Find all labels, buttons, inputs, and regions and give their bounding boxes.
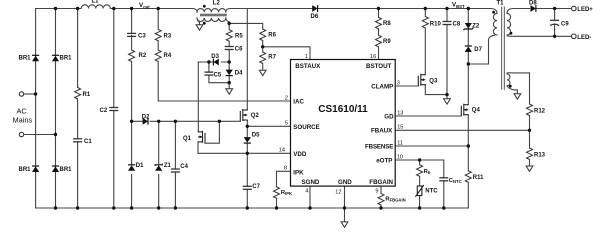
inductor L1 — [78, 5, 114, 9]
polarity dot L2 bottom — [203, 22, 206, 25]
polarity dot T1 secondary — [510, 32, 513, 35]
svg-text:C8: C8 — [453, 21, 461, 27]
wire: top rail from L1 to L2 — [114, 8, 193, 10]
svg-text:eOTP: eOTP — [376, 157, 392, 164]
capacitor C8 — [443, 22, 452, 25]
node: VDD line at D5/C7 — [246, 152, 249, 155]
transformer T1 core — [502, 7, 505, 89]
svg-text:R6: R6 — [268, 33, 276, 39]
svg-text:10: 10 — [397, 154, 403, 160]
node: FBAUX at R12/R13 — [528, 129, 531, 132]
IC U1 CS1610/11 box — [291, 60, 396, 187]
wire: link from clamp node to T1 primary bottom — [468, 35, 494, 64]
svg-text:FBSENSE: FBSENSE — [365, 143, 393, 150]
node: LED+ at C9 — [553, 7, 556, 10]
svg-text:D2: D2 — [142, 114, 150, 120]
wire: Q3 source to clamp ground node — [425, 85, 447, 95]
wire: FBAUX pin 15 line to R12/R13 node — [395, 129, 529, 131]
node: C5/D4 bottom junction — [228, 81, 231, 84]
AC mains terminal (line) — [19, 92, 23, 96]
bridge diode BR1 top-left — [32, 55, 39, 61]
diode D8 — [531, 5, 536, 12]
ground arrow under R7 — [259, 70, 266, 75]
svg-text:Q3: Q3 — [429, 79, 438, 85]
node: top rail at Z2 (VBST) — [467, 7, 470, 10]
svg-text:8: 8 — [284, 166, 287, 172]
svg-text:D5: D5 — [252, 132, 260, 138]
node: eOTP at R6/NTC — [418, 158, 421, 161]
wire: Q4 source to FBSENSE node — [467, 115, 469, 146]
svg-text:R10: R10 — [430, 22, 442, 28]
svg-text:14: 14 — [279, 148, 285, 154]
wire: left bridge column x=35.6 — [35, 9, 37, 209]
polarity dot T1 primary — [492, 11, 495, 14]
svg-text:R2: R2 — [139, 53, 147, 59]
wire: top rail from D6 to T1 primary — [318, 8, 491, 10]
capacitor C1 — [73, 139, 82, 142]
wire: FBGAIN pin 9 stub and RFBGAIN branch x=381 — [380, 186, 382, 208]
svg-text:11: 11 — [397, 140, 403, 146]
svg-text:IAC: IAC — [293, 99, 304, 106]
node: LED- at C9 — [553, 35, 556, 38]
svg-text:NTC: NTC — [425, 188, 438, 194]
node: AC neutral at right column — [54, 133, 57, 136]
svg-text:CS1610/11: CS1610/11 — [318, 104, 368, 115]
wire: C3/R2/D1 branch x=131.6 — [131, 9, 133, 209]
svg-text:2: 2 — [285, 95, 288, 101]
wire: top rail left segment (rectified V+) — [36, 8, 79, 10]
svg-text:AC: AC — [17, 107, 28, 116]
svg-text:C3: C3 — [138, 34, 146, 40]
resistor RFBGAIN — [378, 194, 384, 206]
svg-text:RFBGAIN: RFBGAIN — [385, 197, 405, 203]
wire: Q4 drain from clamp node — [467, 64, 469, 105]
svg-text:BSTAUX: BSTAUX — [295, 63, 321, 70]
thermistor NTC — [415, 185, 423, 197]
wire: GND pin 12 stub and chassis stem — [344, 186, 346, 222]
transformer T1 auxiliary winding — [507, 73, 530, 86]
wire: D3 node line y=62 — [198, 61, 229, 63]
capacitor C9 (polarized) — [550, 20, 559, 25]
wire: T1 secondary bottom lead to LED- — [507, 35, 572, 36]
svg-text:C2: C2 — [100, 108, 108, 114]
node: FBSENSE / Q4 source / R11 — [467, 144, 470, 147]
capacitor C6 — [225, 47, 234, 50]
svg-text:R9: R9 — [383, 39, 391, 45]
svg-text:C5: C5 — [214, 72, 222, 78]
wire: bottom rail (DC return) — [36, 207, 469, 209]
wire: C7 branch x=247.3 — [246, 153, 248, 208]
node: top rail at C2 — [112, 7, 115, 10]
bridge diode BR1 bottom-right — [52, 166, 59, 172]
resistor R13 — [527, 148, 533, 160]
wire: IPK pin 8 line and RIPK branch x=276.5 — [277, 171, 291, 208]
svg-text:R11: R11 — [473, 175, 484, 181]
wire: top rail from L2 to D6 — [230, 8, 312, 10]
svg-text:Z1: Z1 — [164, 163, 172, 169]
svg-text:C6: C6 — [235, 47, 243, 53]
zener Z2 — [463, 23, 473, 30]
LED+ output terminal — [572, 6, 577, 11]
svg-text:5: 5 — [285, 121, 288, 127]
node: top rail at R3 — [157, 7, 160, 10]
AC mains terminal (neutral) — [19, 132, 23, 136]
svg-text:BR1: BR1 — [19, 167, 32, 173]
svg-text:C4: C4 — [180, 164, 188, 170]
polarity dot L2 top — [203, 5, 206, 8]
capacitor CNTC — [439, 178, 448, 181]
diode D2 — [143, 118, 148, 125]
node: Q2 source / SOURCE pin / D5 — [246, 125, 249, 128]
wire: D2 node line y=121.3 to Q2 gate — [132, 120, 241, 122]
wire: T1 aux bottom lead to ground — [507, 86, 517, 94]
resistor R5 — [226, 30, 232, 42]
svg-text:R5: R5 — [235, 34, 243, 40]
wire: C5 branch x=208.9 — [209, 62, 229, 83]
resistor R6 — [260, 29, 266, 41]
wire: eOTP pin 10 line y=160 — [395, 159, 444, 161]
svg-text:C1: C1 — [84, 139, 92, 145]
svg-text:D1: D1 — [136, 163, 144, 169]
svg-text:R7: R7 — [268, 55, 276, 61]
wire: R12/R13 divider branch x=529.5 — [529, 73, 531, 166]
wire: L2 bottom-right lead down to R5 node — [226, 18, 229, 24]
wire: Q1 source down to VDD line — [197, 142, 199, 153]
svg-text:RIPK: RIPK — [281, 190, 292, 196]
node: top rail at R8 — [377, 7, 380, 10]
svg-text:CLAMP: CLAMP — [371, 83, 393, 90]
ground arrow under GND pin — [341, 222, 348, 227]
svg-text:GD: GD — [384, 113, 394, 120]
diode D3 — [213, 59, 218, 66]
node: top rail at right bridge column — [54, 7, 57, 10]
wire: R1-C1 branch x=77.6 — [77, 9, 79, 209]
svg-text:Z2: Z2 — [472, 23, 480, 29]
node: top rail at R10 — [424, 7, 427, 10]
wire: C9 branch x=554.6 — [554, 9, 556, 37]
svg-text:C9: C9 — [561, 21, 569, 27]
resistor R9 — [376, 35, 382, 47]
wire: R10 branch x=425.3 to Q3 drain — [424, 9, 426, 75]
transformer L2 core — [201, 14, 227, 16]
svg-text:IPK: IPK — [293, 170, 304, 177]
wire: right bridge column x=55.5 — [55, 9, 57, 209]
resistor R10 — [422, 17, 428, 29]
wire: FBSENSE pin 11 line — [395, 145, 468, 147]
resistor R11 — [465, 171, 471, 183]
node: top rail at C3 — [130, 7, 133, 10]
wire: GD pin 13 line to Q4 gate — [395, 115, 461, 117]
node: Q3 source / C8 ground node — [445, 93, 448, 96]
capacitor C3 — [127, 33, 136, 36]
svg-text:R8: R8 — [383, 21, 391, 27]
bridge diode BR1 bottom-left — [32, 166, 39, 172]
transformer T1 secondary winding — [507, 9, 530, 36]
svg-text:D4: D4 — [235, 70, 243, 76]
svg-text:L1: L1 — [92, 0, 100, 5]
resistor R12 — [527, 104, 533, 116]
svg-text:SOURCE: SOURCE — [293, 124, 319, 131]
svg-text:R1: R1 — [83, 92, 91, 98]
capacitor C2 — [109, 108, 118, 111]
wire: R6/NTC thermistor branch x=419.6 — [419, 160, 421, 208]
svg-text:13: 13 — [397, 110, 403, 116]
polarity dot T1 aux — [509, 85, 512, 88]
capacitor C5 — [204, 72, 213, 75]
svg-text:R3: R3 — [164, 34, 172, 40]
wire: D8 cathode to LED+ terminal — [536, 8, 572, 10]
svg-text:3: 3 — [397, 80, 400, 86]
svg-text:SGND: SGND — [302, 179, 320, 186]
wire: C2 branch x=113.8 — [113, 9, 115, 209]
svg-text:1: 1 — [305, 54, 308, 60]
node: top rail at R1 — [76, 7, 79, 10]
transformer T1 primary winding — [490, 9, 497, 36]
wire: Q1 gate lead to D2 node — [205, 121, 219, 143]
ground arrow under L2 — [196, 25, 203, 30]
wire: R6/R7 feed line y=23.4 from R5 node — [229, 23, 263, 29]
svg-text:12: 12 — [335, 190, 341, 196]
svg-text:BR1: BR1 — [60, 167, 73, 173]
svg-text:9: 9 — [375, 189, 378, 195]
node: clamp / primary bottom / Q4 drain — [467, 62, 470, 65]
resistor R8 — [376, 17, 382, 29]
resistor R7 — [260, 52, 266, 64]
ground arrow at Q3/C8 node — [444, 99, 451, 104]
node: D2 line junctions — [130, 120, 133, 123]
wire: HV vertical from D3 node down to Q1 drain x=198.3 — [197, 62, 199, 132]
diode D1 — [128, 165, 135, 171]
resistor RIPK — [274, 187, 280, 199]
ground arrow under aux winding — [514, 94, 521, 99]
svg-text:D3: D3 — [211, 54, 219, 60]
resistor R1 — [75, 88, 81, 100]
svg-text:D6: D6 — [311, 14, 319, 20]
svg-text:4: 4 — [305, 189, 308, 195]
wire: Z2/D7 clamp chain x=468.3 — [467, 9, 469, 65]
wire: R3/R4 divider branch x=158.2 and IAC line to pin 2 — [158, 9, 290, 102]
svg-text:BSTOUT: BSTOUT — [366, 63, 392, 70]
svg-text:FBGAIN: FBGAIN — [369, 179, 393, 186]
node: D3 line junctions — [207, 60, 210, 63]
ground arrow under R13 — [526, 166, 533, 171]
svg-text:R4: R4 — [164, 53, 172, 59]
svg-text:CNTC: CNTC — [449, 178, 462, 184]
svg-text:LED+: LED+ — [577, 7, 593, 13]
resistor R6 (NTC series) — [417, 165, 423, 177]
wire: VDD pin 14 line y=153.3 — [198, 152, 291, 154]
svg-text:Q2: Q2 — [251, 113, 260, 119]
svg-text:R6: R6 — [424, 169, 431, 175]
wire: CLAMP pin 3 line to Q3 gate — [395, 85, 418, 87]
wire: Q2 drain from top rail x=247.3 — [246, 9, 248, 111]
wire: D5 branch x=247.3 — [246, 126, 248, 153]
diode D6 — [312, 5, 317, 12]
wire: L2 bottom-left lead to ground — [197, 18, 200, 25]
wire: Q2 source to SOURCE node — [246, 120, 248, 126]
zener Z1 — [155, 164, 162, 171]
diode D7 — [465, 46, 472, 52]
svg-text:Q1: Q1 — [183, 136, 192, 142]
svg-text:15: 15 — [397, 125, 403, 131]
ground arrow under D4 chain — [226, 89, 233, 94]
node: R6/R7 BSTAUX junction — [261, 45, 264, 48]
svg-text:Q4: Q4 — [472, 108, 481, 114]
wire: C8 branch x=447 — [446, 9, 448, 99]
wire: SOURCE pin 5 line y=126.3 — [247, 125, 290, 127]
svg-text:BR1: BR1 — [60, 56, 73, 62]
wire: AC line input to left column — [24, 93, 36, 95]
wire: R5/C6/D4 chain x=229.2 — [228, 23, 230, 88]
LED- output terminal — [572, 34, 577, 39]
svg-text:LED-: LED- — [577, 35, 591, 41]
svg-text:Mains: Mains — [13, 116, 33, 125]
capacitor C7 — [243, 186, 252, 189]
transistor Q2 — [240, 109, 247, 121]
wire: C4 branch x=175.4 — [174, 121, 176, 208]
node: bottom rail junctions — [54, 206, 57, 209]
svg-text:BR1: BR1 — [19, 56, 32, 62]
wire: CNTC branch x=443.8 — [443, 160, 445, 208]
svg-text:D7: D7 — [474, 47, 482, 53]
node: L2/R5 node — [228, 22, 231, 25]
svg-text:16: 16 — [370, 54, 376, 60]
diode D5 — [244, 137, 251, 143]
svg-text:GND: GND — [338, 179, 352, 186]
resistor R3 — [155, 29, 161, 41]
svg-text:R12: R12 — [534, 109, 546, 115]
node: AC line at left column — [34, 92, 37, 95]
svg-text:R13: R13 — [534, 153, 546, 159]
wire: Z1 branch x=158.7 — [158, 121, 160, 208]
transistor Q1 (startup FET, mirrored) — [198, 131, 205, 143]
transistor Q3 — [418, 74, 425, 86]
wire: R6 to R7 junction and BSTAUX pin 1 line — [263, 41, 310, 71]
svg-text:VDD: VDD — [293, 151, 307, 158]
node: top rail at C8 — [445, 7, 448, 10]
transformer L2 top winding — [193, 9, 231, 13]
wire: SGND pin 4 stub — [309, 186, 311, 208]
svg-text:D8: D8 — [529, 0, 537, 6]
resistor R2 — [129, 50, 135, 62]
resistor R4 — [155, 50, 161, 62]
capacitor C4 — [171, 169, 180, 172]
svg-text:FBAUX: FBAUX — [371, 128, 393, 135]
wire: R11 branch x=468.3 — [467, 146, 469, 208]
svg-text:L2: L2 — [213, 1, 221, 7]
transformer L2 bottom winding — [197, 18, 226, 22]
wire: BSTOUT chain R8/R9 x=378.5 — [378, 9, 380, 60]
transistor Q4 — [461, 104, 468, 116]
diode D4 — [226, 70, 233, 76]
svg-text:T1: T1 — [497, 1, 505, 7]
wire: AC neutral input to right column — [24, 134, 56, 136]
svg-text:C7: C7 — [252, 184, 260, 190]
bridge diode BR1 top-right — [52, 55, 59, 61]
